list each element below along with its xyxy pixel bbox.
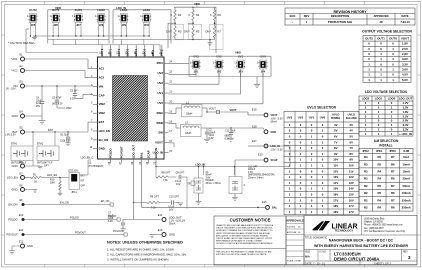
VIN voltage label: [6, 88, 16, 91]
svg-text:5.0V: 5.0V: [402, 78, 408, 82]
svg-text:VIN0: VIN0: [55, 6, 61, 10]
svg-text:16V: 16V: [176, 183, 181, 186]
svg-text:10V: 10V: [333, 158, 338, 162]
svg-text:U1: U1: [88, 161, 92, 165]
Linear Technology logo: [313, 221, 358, 232]
svg-text:E16: E16: [252, 108, 257, 112]
svg-text:GND: GND: [169, 233, 175, 237]
title text: [305, 237, 409, 248]
U1 left pin 4 CAP: [91, 93, 105, 98]
svg-text:CUSTOMER NOTICE: CUSTOMER NOTICE: [230, 218, 271, 223]
svg-text:LDO_EN: LDO_EN: [68, 170, 78, 173]
ground main input: [39, 120, 46, 124]
C1 value label: [206, 172, 221, 185]
svg-text:HZ202F: HZ202F: [206, 180, 215, 182]
svg-text:TECHNOLOGY: TECHNOLOGY: [335, 228, 354, 232]
svg-text:14V: 14V: [333, 181, 338, 185]
svg-text:APPROVALS: APPROVALS: [286, 219, 304, 223]
svg-text:1.8V: 1.8V: [402, 42, 408, 46]
svg-text:EXT: EXT: [81, 176, 86, 178]
svg-text:BTH1: BTH1: [11, 143, 18, 146]
svg-text:PGVOUT: PGVOUT: [6, 233, 18, 237]
svg-text:1.8V - 5.5V: 1.8V - 5.5V: [271, 148, 284, 151]
svg-text:APPROVED: APPROVED: [373, 14, 388, 18]
svg-text:UV3: UV3: [157, 71, 163, 75]
svg-text:PRODUCTION FAB: PRODUCTION FAB: [328, 20, 352, 24]
terminal E13 GND: [154, 228, 175, 237]
svg-text:UV2: UV2: [298, 115, 304, 119]
svg-text:DEMO CIRCUIT 2048A: DEMO CIRCUIT 2048A: [334, 256, 379, 261]
resistor R2: [171, 7, 182, 20]
svg-text:5V: 5V: [334, 129, 338, 133]
svg-text:VIN2: VIN2: [66, 107, 72, 110]
svg-text:TECHNOLOGY APPLICATIONS ENGINE: TECHNOLOGY APPLICATIONS ENGINEERING FOR …: [216, 242, 273, 245]
svg-text:R5: R5: [377, 191, 381, 195]
terminal E10 PGLDO: [8, 213, 120, 222]
revision history table: [285, 8, 415, 25]
svg-text:SW: SW: [158, 131, 163, 135]
svg-text:LDO_IN: LDO_IN: [154, 148, 158, 158]
svg-text:UVLO SELECTION: UVLO SELECTION: [307, 106, 337, 110]
svg-text:R4: R4: [377, 198, 381, 202]
svg-text:90mF: 90mF: [206, 175, 213, 177]
wire VIN to U1: [25, 85, 93, 86]
svg-text:7V: 7V: [334, 140, 338, 144]
BAT voltage label: [5, 134, 16, 137]
svg-text:OUTPUT VOLTAGE SELECTION: OUTPUT VOLTAGE SELECTION: [362, 30, 412, 34]
svg-text:SIZE: SIZE: [305, 252, 311, 254]
svg-text:7.3k: 7.3k: [163, 179, 168, 182]
svg-text:SWA: SWA: [157, 111, 163, 115]
svg-text:E15: E15: [262, 200, 267, 204]
svg-text:DATE: 7 - 29 - 13: DATE: 7 - 29 - 13: [305, 261, 325, 265]
jumper JP6 (OUT1): [49, 8, 60, 27]
svg-text:LDO0: LDO0: [388, 97, 396, 101]
svg-text:16V: 16V: [349, 198, 354, 202]
ground C12 box: [232, 194, 238, 201]
jumper JP7 (OUT0): [72, 8, 83, 27]
svg-text:C3 1uF: C3 1uF: [70, 91, 78, 93]
jumper JP10 (LDO0): [140, 8, 151, 27]
svg-text:HOWEVER, IT REMAINS THE CUSTOM: HOWEVER, IT REMAINS THE CUSTOMER'S RESPO…: [216, 229, 273, 232]
svg-text:GND: GND: [12, 188, 18, 192]
wire ladder bottom bus: [175, 39, 215, 40]
svg-text:R3: R3: [178, 30, 182, 34]
terminal E18 GND: [252, 125, 276, 134]
terminal E5 BAT: [13, 125, 25, 134]
svg-text:DATE: DATE: [401, 14, 408, 18]
svg-text:R7: R7: [391, 155, 395, 159]
approvals box: [286, 216, 304, 265]
jumper JP9 (LDO1): [118, 8, 129, 27]
U1 left pin 10 GND: [90, 146, 105, 151]
svg-text:PGLDO: PGLDO: [8, 218, 17, 222]
svg-text:R2: R2: [364, 191, 368, 195]
svg-text:VIN: VIN: [99, 84, 104, 88]
svg-text:10M: 10M: [50, 182, 55, 184]
ground C6: [65, 143, 70, 146]
svg-text:DESCRIPTION: DESCRIPTION: [331, 14, 349, 18]
svg-text:R8 OPT: R8 OPT: [162, 172, 171, 175]
svg-text:R5: R5: [377, 162, 381, 166]
svg-text:33uH: 33uH: [185, 131, 191, 135]
svg-text:330mF: 330mF: [248, 169, 256, 171]
ground battery: [33, 166, 43, 169]
svg-text:R7: R7: [218, 30, 222, 34]
resistor R7 (DNP): [206, 21, 223, 50]
svg-text:N/A: N/A: [305, 255, 310, 259]
svg-text:R2: R2: [364, 198, 368, 202]
svg-text:NANOPOWER BUCK - BOOST DC / DC: NANOPOWER BUCK - BOOST DC / DC: [329, 239, 394, 243]
svg-text:1206: 1206: [108, 218, 114, 220]
ground C7: [120, 229, 125, 232]
svg-text:DNP: DNP: [206, 30, 212, 34]
terminal E11 PGVOUT: [6, 228, 127, 237]
svg-text:11V: 11V: [333, 164, 338, 168]
svg-text:LINEAR TECHNOLOGY HAS MADE A B: LINEAR TECHNOLOGY HAS MADE A BEST EFFORT…: [216, 224, 274, 227]
svg-text:REVISION HISTORY: REVISION HISTORY: [333, 10, 367, 14]
svg-text:6.3V: 6.3V: [70, 99, 75, 101]
U1 left pin 8 LDO_EN: [91, 128, 110, 133]
U1 top pin 31 OUT1: [108, 48, 112, 57]
title block frame: [304, 216, 417, 266]
svg-text:E12: E12: [19, 240, 24, 244]
U1 bottom pin BAL: [139, 152, 143, 164]
svg-text:SCALE = NONE: SCALE = NONE: [287, 260, 302, 263]
svg-text:E19: E19: [258, 153, 263, 157]
svg-text:BAL: BAL: [139, 152, 143, 158]
U1 right pin 17 SW: [158, 130, 172, 135]
svg-text:UVLO: UVLO: [332, 113, 339, 117]
ground C2: [204, 139, 210, 142]
svg-text:GND: GND: [27, 244, 33, 248]
svg-text:9V: 9V: [350, 158, 354, 162]
U1 bottom pin PGVOUT: [119, 146, 123, 165]
terminal E8 GND: [12, 183, 33, 191]
svg-text:14V: 14V: [349, 187, 354, 191]
wire LDO_IN bus under IC: [156, 146, 290, 167]
svg-text:R4: R4: [377, 177, 381, 181]
svg-text:* AC2: * AC2: [11, 69, 18, 73]
U1 left pin 7 BAT: [91, 120, 104, 125]
svg-text:LDO_OUT: LDO_OUT: [399, 97, 413, 101]
svg-text:1206 6.3V: 1206 6.3V: [60, 141, 71, 143]
terminal E12 GND: [12, 240, 33, 251]
svg-text:7V: 7V: [350, 146, 354, 150]
svg-text:R2: R2: [364, 206, 368, 210]
svg-text:VIN0: VIN0: [194, 2, 200, 6]
svg-text:18V: 18V: [333, 204, 338, 208]
svg-text:OPT: OPT: [44, 165, 49, 167]
U1 left pin 6 VIN2: [91, 111, 105, 116]
svg-text:CIRCUIT BOARD LAYOUT MAY SIGNI: CIRCUIT BOARD LAYOUT MAY SIGNIFICANTLY A…: [216, 237, 273, 240]
svg-text:R7: R7: [391, 184, 395, 188]
svg-text:APPLICATION. COMPONENT SUBSTI: APPLICATION. COMPONENT SUBSTITUTION AND …: [216, 234, 269, 237]
svg-text:50mA: 50mA: [402, 184, 410, 188]
svg-text:50mA: 50mA: [169, 223, 176, 226]
svg-text:LDO_EN_C: LDO_EN_C: [81, 157, 94, 160]
svg-text:SCAP: SCAP: [146, 150, 150, 158]
svg-text:NOTES: UNLESS OTHERWISE SPECIF: NOTES: UNLESS OTHERWISE SPECIFIED: [107, 241, 183, 245]
svg-text:DMF3R5R5L334M3DTA0: DMF3R5R5L334M3DTA0: [248, 174, 275, 177]
wire VOUT run to E16: [207, 107, 263, 115]
wire SW to L2 / VOUT node: [201, 108, 208, 128]
IC U1 LTC3330EUH main body: [98, 57, 165, 159]
svg-text:VIN2: VIN2: [99, 111, 106, 115]
terminal E2 AC2: [11, 64, 25, 73]
svg-text:REV: REV: [304, 14, 310, 18]
svg-text:LTC3330EUH: LTC3330EUH: [88, 165, 103, 168]
svg-text:6V: 6V: [334, 135, 338, 139]
svg-text:CIRCUIT THAT MEETS CUSTOMER-SU: CIRCUIT THAT MEETS CUSTOMER-SUPPLIED SPE…: [216, 227, 273, 230]
wire VIN0 ladder top bus: [174, 6, 216, 8]
svg-text:25V: 25V: [36, 106, 41, 108]
svg-text:R5: R5: [377, 155, 381, 159]
svg-text:17V: 17V: [349, 210, 354, 214]
svg-text:7.3k: 7.3k: [151, 207, 156, 210]
part number block: [305, 252, 411, 262]
U1 top pin 27 LDO0: [142, 48, 146, 57]
svg-text:C12 OPT: C12 OPT: [248, 166, 258, 168]
svg-text:REV.: REV.: [403, 252, 408, 254]
svg-text:PGVOUT: PGVOUT: [75, 230, 86, 234]
svg-text:R2: R2: [364, 184, 368, 188]
U1 bottom pin SCAP: [146, 150, 150, 164]
svg-text:R9 OPT: R9 OPT: [150, 196, 159, 199]
notes block: [107, 241, 187, 262]
wire lattice to U1 top pins: [26, 39, 164, 52]
wire BAT to U1: [25, 122, 93, 133]
svg-text:C8 OPT: C8 OPT: [176, 172, 185, 175]
resistor R1 1K: [25, 173, 60, 184]
svg-text:3.6V: 3.6V: [402, 67, 408, 71]
svg-text:EH_ON: EH_ON: [8, 203, 17, 207]
output voltage selection table: [362, 30, 412, 83]
capacitor C5 4.7uF: [52, 86, 72, 110]
capacitor C10 OPT: [168, 196, 180, 212]
svg-text:PGVOUT: PGVOUT: [113, 230, 124, 233]
svg-text:GND: GND: [99, 147, 105, 151]
U1 left pin 3 VIN: [91, 84, 103, 89]
customer notice box: [214, 216, 286, 265]
svg-text:R3: R3: [364, 162, 368, 166]
svg-text:R10: R10: [50, 180, 55, 182]
svg-text:R6: R6: [391, 162, 395, 166]
svg-text:FALLING: FALLING: [346, 116, 357, 120]
svg-text:IPK1: IPK1: [376, 149, 383, 153]
svg-text:11V: 11V: [349, 169, 354, 173]
svg-text:R6: R6: [391, 177, 395, 181]
svg-text:VOUT: VOUT: [230, 109, 237, 112]
jumper JP4 (UV0): [257, 55, 268, 74]
wires SWA SWB to L1: [169, 108, 182, 128]
svg-text:2. ALL CAPACITORS ARE IN MICRO: 2. ALL CAPACITORS ARE IN MICROFARADS, 04…: [107, 253, 187, 257]
wire ladder taps: [168, 7, 216, 53]
svg-text:INT: INT: [81, 181, 85, 183]
svg-text:UV0: UV0: [157, 101, 163, 105]
svg-text:ECO: ECO: [290, 14, 296, 18]
svg-text:SWB: SWB: [156, 121, 163, 125]
U1 left pin 2 AC2: [91, 75, 105, 80]
svg-text:JP9: JP9: [122, 24, 127, 27]
svg-text:LDO_EN: LDO_EN: [99, 129, 110, 133]
resistor R4: [189, 7, 200, 20]
jumper JP11 LDO_EN: [60, 170, 86, 195]
U1 top pin 29 LDO2: [125, 48, 129, 57]
svg-text:JP2: JP2: [217, 70, 222, 73]
svg-text:OUT0: OUT0: [389, 36, 397, 40]
svg-text:CAP: CAP: [99, 93, 105, 97]
capacitor C6 22uF: [60, 132, 71, 143]
top jumper drop wires: [26, 23, 150, 53]
svg-text:TITLE: SCHEMATIC: TITLE: SCHEMATIC: [305, 237, 327, 240]
group box bottom edges: [48, 38, 171, 40]
svg-text:8V: 8V: [334, 146, 338, 150]
terminal E1 AC1: [11, 52, 25, 61]
svg-text:IPK0: IPK0: [390, 149, 397, 153]
ground E12: [9, 251, 15, 254]
U1 left pin 1 AC1: [91, 66, 105, 71]
terminal E6 GND: [12, 160, 33, 168]
wire AC2 to U1: [25, 71, 93, 78]
terminal E9 EH_ON: [8, 198, 113, 207]
svg-text:C10 OPT: C10 OPT: [169, 196, 180, 199]
svg-text:R6: R6: [391, 191, 395, 195]
svg-text:EH_ON: EH_ON: [60, 200, 69, 204]
svg-text:E18: E18: [252, 125, 257, 129]
svg-text:15V: 15V: [333, 187, 338, 191]
capacitor C7 22uF: [108, 213, 125, 229]
svg-text:R4: R4: [377, 170, 381, 174]
svg-text:7-29-13: 7-29-13: [400, 20, 410, 24]
svg-text:GND: GND: [271, 131, 277, 134]
svg-text:LDO_EN: LDO_EN: [47, 173, 57, 177]
terminal E17 LDO_IN: [252, 139, 283, 151]
svg-text:4V: 4V: [334, 123, 338, 127]
svg-text:LDO_EN: LDO_EN: [7, 176, 18, 180]
svg-text:Phone: (408)432-1900 www.line: Phone: (408)432-1900 www.linear.com: [364, 224, 403, 227]
battery holder BTH1: [11, 132, 33, 165]
svg-text:3.0V: 3.0V: [402, 57, 408, 61]
svg-text:OFF: OFF: [81, 186, 86, 188]
svg-text:PERFORMANCE OR RELIABILITY. C: PERFORMANCE OR RELIABILITY. CONTACT LINE…: [216, 240, 262, 243]
svg-text:18V: 18V: [333, 210, 338, 214]
svg-text:6.3V: 6.3V: [108, 221, 113, 223]
U1 right pin 15 LDO_IN: [153, 150, 173, 155]
U1 right pin 22 UV2: [157, 81, 172, 86]
terminal E19 SCAP: [258, 153, 278, 162]
svg-text:E13: E13: [158, 228, 163, 232]
U1 right pin 16 VOUT: [155, 140, 173, 145]
svg-text:15mA: 15mA: [402, 170, 410, 174]
svg-text:VOUT: VOUT: [271, 114, 278, 117]
svg-text:-: -: [292, 21, 293, 24]
wire BAL to E15: [142, 164, 265, 209]
svg-text:ILIM: ILIM: [403, 149, 409, 153]
ground R10: [58, 193, 63, 196]
svg-text:R7: R7: [391, 198, 395, 202]
svg-text:LDO1: LDO1: [375, 97, 383, 101]
ground ladder: [208, 40, 213, 46]
svg-text:UV1: UV1: [157, 91, 163, 95]
U1 top pin 30 OUT0: [117, 48, 121, 57]
wire AC1 to U1: [25, 59, 93, 69]
jumper JP3 (UV1): [234, 55, 245, 74]
svg-text:17V: 17V: [333, 198, 338, 202]
ground C11: [228, 138, 234, 141]
svg-text:JP1: JP1: [194, 70, 199, 73]
svg-text:4V: 4V: [350, 129, 354, 133]
svg-text:SUPPLIED FOR USE WITH LINEAR T: SUPPLIED FOR USE WITH LINEAR TECHNOLOGY …: [216, 253, 267, 256]
terminal E16 VOUT: [252, 108, 283, 124]
svg-text:8V: 8V: [350, 152, 354, 156]
svg-text:BAL: BAL: [272, 206, 278, 209]
U1 top pin 28 LDO1: [134, 48, 138, 57]
svg-text:AC1: AC1: [99, 67, 105, 71]
capacitor C2 100uF: [205, 128, 216, 140]
terminal E14 LDO_OUT: [158, 213, 185, 226]
svg-text:5mA: 5mA: [403, 155, 409, 159]
svg-text:+ LDO_IN: + LDO_IN: [399, 132, 412, 136]
svg-text:3V - 19V: 3V - 19V: [6, 88, 16, 91]
capacitor C4 22uF: [36, 86, 44, 120]
svg-text:PCB DES: PCB DES: [287, 227, 296, 229]
svg-text:PGVOUT: PGVOUT: [119, 146, 123, 158]
svg-text:BAT: BAT: [99, 120, 105, 124]
svg-text:EH_ON: EH_ON: [99, 138, 109, 142]
resistor R6: [210, 7, 221, 20]
svg-text:13V: 13V: [349, 181, 354, 185]
svg-text:UV3: UV3: [193, 55, 199, 59]
ground C1: [196, 193, 202, 204]
svg-text:E11: E11: [19, 228, 24, 232]
svg-text:20mm x 15mm: 20mm x 15mm: [206, 183, 221, 185]
svg-text:UV2: UV2: [216, 55, 222, 59]
wire GND E4: [25, 115, 42, 117]
ground C10: [178, 203, 183, 206]
LDO voltage selection table: [359, 90, 413, 136]
capacitor C3 1uF: [70, 86, 93, 101]
svg-text:JP4: JP4: [261, 70, 266, 73]
svg-text:16V: 16V: [333, 193, 338, 197]
ground E13: [149, 235, 154, 238]
wire box around JP9-JP10 group: [113, 10, 171, 44]
svg-text:LTC Confidential-For Customer: LTC Confidential-For Customer Use Only: [364, 230, 406, 233]
svg-text:R5: R5: [196, 30, 200, 34]
svg-text:OUT2: OUT2: [29, 8, 37, 12]
terminal E15 BAL: [262, 200, 278, 209]
svg-text:AC2: AC2: [99, 76, 105, 80]
svg-text:R2: R2: [178, 13, 182, 17]
svg-text:EH_ON: EH_ON: [101, 200, 110, 203]
U1 top pin 32 OUT2: [100, 48, 104, 57]
inductor L1 33uH: [182, 101, 203, 117]
svg-text:10V: 10V: [349, 164, 354, 168]
svg-text:9V: 9V: [334, 152, 338, 156]
svg-text:R7: R7: [391, 170, 395, 174]
svg-text:PGLDO: PGLDO: [70, 215, 79, 219]
jumper JP2 (UV2): [213, 55, 224, 74]
terminal E3 VIN: [13, 79, 24, 88]
wire node 3 to C1: [187, 177, 195, 209]
svg-text:5V: 5V: [350, 135, 354, 139]
svg-text:IPK0: IPK0: [157, 61, 164, 65]
svg-text:JP6: JP6: [53, 24, 58, 27]
svg-text:PGLDO: PGLDO: [108, 147, 112, 158]
svg-text:OUT1: OUT1: [377, 36, 385, 40]
date and sheet block: [305, 261, 392, 265]
jumper JP5 (OUT2): [27, 8, 38, 27]
